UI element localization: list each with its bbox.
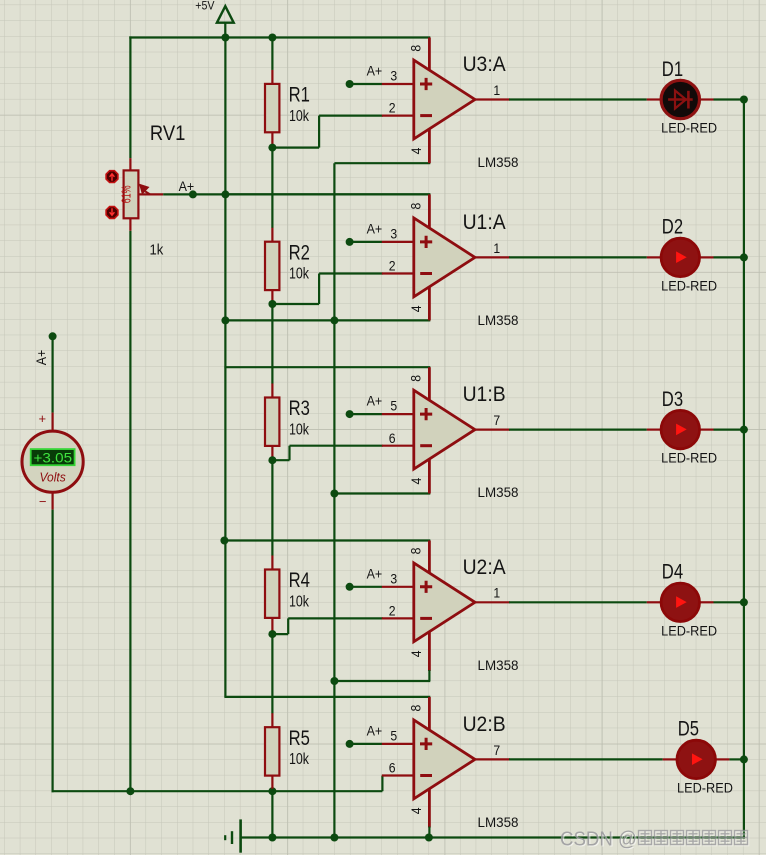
svg-text:RV1: RV1 (150, 122, 186, 145)
ground symbol (239, 819, 242, 852)
junction R5 bottom at y=791.2 (268, 787, 276, 795)
RV1 top pin (129, 158, 131, 170)
wire A+ input U1:B (350, 413, 382, 415)
U3:A pin4 stub (428, 128, 431, 164)
RV1 wiper pin (139, 193, 163, 195)
svg-text:−: − (39, 494, 47, 509)
U1:B output pin 7 stub (473, 429, 510, 431)
R1 bottom pin (271, 132, 273, 146)
wire U2:A output to D4 (509, 601, 647, 603)
D1 cathode pin (698, 98, 713, 100)
wire bus RV1 left lower x=130.4 (129, 231, 131, 793)
svg-text:R2: R2 (289, 241, 310, 264)
wire U2:A pin4 tail (428, 670, 430, 681)
U2:B pin4 stub (428, 787, 431, 827)
wire bus RV1 left upper x=130.4 (129, 36, 131, 158)
voltmeter display (31, 449, 75, 465)
wire tap to jog U1:B (272, 459, 289, 461)
op-amp U1:A minus mark (420, 272, 432, 275)
op-amp U1:A plus mark (420, 236, 432, 248)
wire jog to inverting pin U1:A (319, 272, 383, 274)
svg-text:LED-RED: LED-RED (661, 277, 717, 293)
D3 anode pin (647, 429, 663, 431)
R1 top pin (271, 70, 273, 84)
svg-text:U2:A: U2:A (463, 556, 506, 579)
junction +5V bus at y=194.4 (221, 190, 229, 198)
wire chain R4-R5 (271, 631, 273, 713)
svg-text:U1:B: U1:B (463, 383, 506, 406)
wire U1:B pin4 feed (334, 492, 430, 494)
svg-text:5: 5 (390, 728, 397, 744)
U2:A pin 3 stub (382, 586, 415, 588)
svg-text:1: 1 (493, 585, 500, 601)
U1:B pin4 stub (428, 458, 431, 494)
wire tap to jog U2:A (272, 633, 288, 635)
op-amp U1:A body (414, 218, 475, 297)
wire top +5V rail y=37.5 (129, 36, 430, 38)
svg-text:D1: D1 (662, 58, 683, 81)
LED D1 diode glyph (668, 91, 693, 109)
svg-text:8: 8 (407, 45, 423, 52)
wire voltmeter bottom (51, 510, 53, 793)
U2:B pin8 stub (428, 697, 431, 732)
svg-text:3: 3 (390, 226, 397, 242)
D5 cathode pin (714, 758, 729, 760)
wire D2 to cathode bus (714, 256, 744, 258)
svg-text:R4: R4 (289, 569, 311, 592)
wire tap to jog U3:A (272, 147, 319, 149)
junction divider tap for U1:B (268, 456, 276, 464)
U2:A pin 2 stub (382, 617, 415, 619)
wire D1 to cathode bus (714, 98, 744, 100)
wire jog to inverting pin U3:A (319, 114, 383, 116)
svg-text:LM358: LM358 (478, 657, 519, 673)
svg-text:R3: R3 (289, 397, 310, 420)
wire A+ input U3:A (350, 83, 382, 85)
node A+ voltmeter dangling end (49, 332, 57, 340)
junction R5 chain at ground rail (268, 834, 276, 842)
svg-text:2: 2 (389, 100, 396, 116)
svg-text:4: 4 (408, 807, 424, 814)
op-amp U2:B minus mark (420, 774, 432, 777)
junction ground bus at U1:B pin4 row (330, 490, 338, 498)
RV1 wiper arrow (145, 191, 150, 194)
svg-text:1k: 1k (150, 241, 164, 258)
op-amp U1:B plus mark (420, 408, 432, 420)
LED D5 (lit) body (677, 740, 715, 778)
U1:A pin 2 stub (382, 272, 415, 274)
resistor R3 body (265, 398, 279, 446)
R3 bottom pin (271, 446, 273, 460)
RV1 up button (106, 171, 118, 183)
U3:A pin8 stub (428, 38, 431, 72)
wire U2:B pin8 feed (224, 696, 430, 698)
resistor R4 body (265, 570, 279, 618)
svg-text:LM358: LM358 (478, 814, 519, 830)
potentiometer RV1 body (124, 170, 139, 218)
svg-text:A+: A+ (367, 63, 383, 79)
node A+ input U3:A (346, 80, 354, 88)
wire U1:B pin8 feed (224, 366, 430, 368)
op-amp U1:B body (414, 390, 475, 469)
wire U1:A pin8 feed (224, 193, 430, 195)
svg-text:10k: 10k (289, 422, 310, 439)
U3:A pin 2 stub (382, 114, 415, 116)
node A+ input U2:A (346, 583, 354, 591)
junction cathode bus D5 (740, 755, 748, 763)
svg-text:D2: D2 (662, 216, 683, 239)
U2:B pin 5 stub (382, 743, 415, 745)
U2:A pin4 stub (428, 630, 431, 671)
junction U2:B pin4 at ground rail (425, 834, 433, 842)
wire chain R5-ground rail (271, 789, 273, 838)
svg-text:+: + (39, 411, 47, 426)
junction cathode bus D2 (740, 253, 748, 261)
wire chain R3-R4 (271, 459, 273, 556)
svg-text:8: 8 (407, 547, 423, 554)
svg-text:LM358: LM358 (478, 484, 519, 500)
RV1 down button (106, 207, 118, 219)
LED D4 lit arrow (676, 596, 687, 608)
wire U2:B pin6 riser x=382.4 (381, 776, 383, 792)
wire jog riser U1:A (318, 274, 320, 305)
wire jog riser U1:B (288, 446, 290, 461)
wire U2:A pin4 feed (334, 680, 430, 682)
op-amp U3:A body (414, 60, 475, 139)
svg-text:R5: R5 (289, 727, 310, 750)
U1:B pin 5 stub (382, 413, 415, 415)
resistor R2 body (265, 242, 279, 290)
LED D4 (lit) body (661, 583, 699, 621)
wire jog riser U2:A (287, 618, 289, 634)
wire D5 to cathode bus (729, 758, 744, 760)
LED D5 lit arrow (692, 753, 703, 765)
R5 bottom pin (271, 776, 273, 790)
svg-text:U2:B: U2:B (463, 713, 506, 736)
svg-text:4: 4 (408, 650, 424, 657)
junction ground bus at U2:A pin4 row (330, 677, 338, 685)
U2:A pin8 stub (428, 541, 431, 575)
wire feedback row y=791.2 (52, 790, 383, 792)
svg-text:Volts: Volts (39, 469, 66, 484)
wire jog riser U3:A (318, 116, 320, 148)
D1 anode pin (647, 98, 663, 100)
svg-text:6: 6 (389, 430, 396, 446)
svg-text:3: 3 (390, 68, 397, 84)
voltmeter PV1 body (22, 431, 83, 492)
wire A+ input U2:A (350, 586, 382, 588)
svg-text:A+: A+ (33, 350, 49, 366)
LED D1 (off) body (661, 80, 699, 118)
node A+ input U1:A (346, 238, 354, 246)
op-amp U2:B body (414, 720, 475, 799)
junction wiper A+ dangling end (189, 190, 197, 198)
R2 bottom pin (271, 290, 273, 304)
op-amp U2:B plus mark (420, 738, 432, 750)
svg-text:LED-RED: LED-RED (677, 779, 733, 795)
svg-text:4: 4 (408, 305, 424, 312)
wire U2:A pin8 feed (224, 539, 430, 541)
svg-text:4: 4 (408, 147, 424, 154)
svg-text:A+: A+ (367, 393, 383, 409)
svg-text:3: 3 (390, 570, 397, 586)
svg-text:2: 2 (389, 258, 396, 274)
voltmeter - pin (51, 492, 53, 510)
U2:B pin 6 stub (382, 774, 415, 776)
op-amp U2:A body (414, 563, 475, 642)
svg-text:LM358: LM358 (478, 154, 519, 170)
svg-text:10k: 10k (289, 594, 310, 611)
svg-text:U1:A: U1:A (463, 211, 506, 234)
R4 top pin (271, 555, 273, 569)
junction +5V bus (221, 34, 229, 42)
node A+ input U1:B (346, 410, 354, 418)
wire U1:A pin4 feed (225, 319, 430, 321)
wire ground bus x=334.4 (333, 163, 335, 838)
wire jog to inverting pin U2:A (288, 617, 383, 619)
svg-text:R1: R1 (289, 84, 310, 107)
wire +5V bus x=225.4 (224, 38, 226, 697)
svg-text:61%: 61% (120, 185, 134, 203)
wire U3:A pin4 feed (334, 162, 430, 164)
wire U2:B output to D5 (509, 758, 663, 760)
junction +5V bus at U2:A pin8 row (220, 537, 228, 545)
wire tap to jog U1:A (272, 303, 319, 305)
op-amp U3:A plus mark (420, 78, 432, 90)
wire A+ input U2:B (350, 743, 382, 745)
svg-text:4: 4 (408, 478, 424, 485)
U1:A output pin 1 stub (473, 256, 510, 258)
svg-text:8: 8 (407, 203, 423, 210)
U3:A pin 3 stub (382, 83, 415, 85)
svg-text:+3.05: +3.05 (34, 450, 73, 466)
svg-text:CSDN @: CSDN @ (560, 829, 637, 851)
R2 top pin (271, 228, 273, 242)
svg-text:10k: 10k (289, 751, 310, 768)
wire wiper A+ to U1:A pin8 row y=194.4 (163, 193, 430, 195)
wire LED cathode bus x=743.9 (743, 99, 745, 837)
svg-text:LED-RED: LED-RED (661, 120, 717, 136)
op-amp U2:A plus mark (420, 581, 432, 593)
svg-text:10k: 10k (289, 108, 310, 125)
svg-text:LED-RED: LED-RED (661, 622, 717, 638)
svg-text:7: 7 (493, 412, 500, 428)
op-amp U1:B minus mark (420, 444, 432, 447)
resistor R5 body (265, 727, 279, 775)
svg-text:A+: A+ (367, 723, 383, 739)
D4 anode pin (647, 601, 663, 603)
LED D2 (lit) body (661, 238, 699, 276)
wire U1:B output to D3 (509, 429, 647, 431)
junction ground bus at U1:A pin4 row (330, 316, 338, 324)
svg-text:10k: 10k (289, 266, 310, 283)
svg-text:1: 1 (493, 82, 500, 98)
svg-text:D5: D5 (678, 718, 699, 741)
R3 top pin (271, 383, 273, 397)
D4 cathode pin (698, 601, 713, 603)
svg-text:2: 2 (389, 603, 396, 619)
junction cathode bus D1 (740, 96, 748, 104)
LED D3 lit arrow (676, 424, 687, 436)
svg-text:8: 8 (407, 705, 423, 712)
wire D3 to cathode bus (714, 429, 744, 431)
junction divider tap for U2:A (268, 630, 276, 638)
svg-text:A+: A+ (367, 221, 383, 237)
wire chain R1-R2 (271, 146, 273, 227)
RV1 bottom pin (129, 218, 131, 230)
wire voltmeter top (51, 336, 53, 412)
node A+ input U2:B (346, 740, 354, 748)
power symbol +5V arrow (217, 6, 234, 23)
wire chain R2-R3 (271, 303, 273, 384)
svg-text:LED-RED: LED-RED (661, 450, 717, 466)
U3:A output pin 1 stub (473, 98, 510, 100)
resistor R1 body (265, 84, 279, 132)
wire jog to inverting pin U1:B (290, 445, 383, 447)
svg-text:1: 1 (493, 240, 500, 256)
svg-text:+5V: +5V (195, 0, 214, 12)
svg-text:A+: A+ (367, 565, 383, 581)
U1:A pin4 stub (428, 285, 431, 320)
junction R1 top (268, 34, 276, 42)
wire A+ input U1:A (350, 241, 382, 243)
svg-text:LM358: LM358 (478, 312, 519, 328)
R4 bottom pin (271, 618, 273, 632)
voltmeter + pin (51, 413, 53, 432)
watermark CSDN (560, 829, 749, 852)
svg-text:A+: A+ (179, 178, 195, 194)
D3 cathode pin (698, 429, 713, 431)
wire chain +5V rail to R1 (271, 38, 273, 70)
wire U3:A output to D1 (509, 98, 647, 100)
svg-text:D3: D3 (662, 388, 683, 411)
svg-text:6: 6 (389, 760, 396, 776)
svg-text:D4: D4 (662, 561, 684, 584)
wire +5V stem (224, 23, 226, 39)
junction RV1 bottom at y=791.2 (126, 787, 134, 795)
op-amp U3:A minus mark (420, 114, 432, 117)
wire ground rail y=837.5 (241, 836, 745, 838)
svg-text:7: 7 (493, 742, 500, 758)
U1:B pin 6 stub (382, 445, 415, 447)
junction +5V bus at U1:A pin4 row (221, 316, 229, 324)
junction ground bus at ground rail (330, 834, 338, 842)
LED D2 lit arrow (676, 251, 687, 263)
svg-text:5: 5 (390, 398, 397, 414)
junction cathode bus D3 (740, 426, 748, 434)
wire U2:B pin4 tail (428, 827, 430, 838)
junction divider tap for U1:A (268, 300, 276, 308)
D5 anode pin (663, 758, 679, 760)
svg-text:U3:A: U3:A (463, 53, 506, 76)
U2:B output pin 7 stub (473, 758, 510, 760)
junction divider tap for U3:A (268, 144, 276, 152)
wire U1:A output to D2 (509, 256, 647, 258)
wire D4 to cathode bus (714, 601, 744, 603)
U1:A pin 3 stub (382, 241, 415, 243)
R5 top pin (271, 713, 273, 727)
op-amp U2:A minus mark (420, 617, 432, 620)
LED D3 (lit) body (661, 410, 699, 448)
D2 cathode pin (698, 256, 713, 258)
U1:B pin8 stub (428, 367, 431, 401)
U2:A output pin 1 stub (473, 601, 510, 603)
svg-text:8: 8 (407, 375, 423, 382)
D2 anode pin (647, 256, 663, 258)
U1:A pin8 stub (428, 194, 431, 229)
junction cathode bus D4 (740, 598, 748, 606)
